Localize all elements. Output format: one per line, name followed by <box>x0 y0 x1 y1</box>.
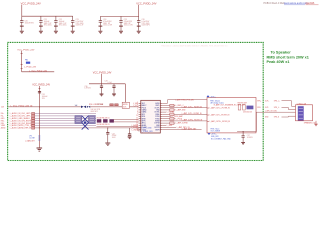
capacitor C11 (bootstrap) <box>170 109 174 112</box>
ground (C22) <box>54 31 58 33</box>
wire row 6 <box>35 125 96 127</box>
net label over long wire <box>265 111 278 113</box>
net label GND stub <box>176 109 187 112</box>
net label BSPR <box>182 127 197 130</box>
net label BSNL <box>182 112 203 115</box>
svg-text:L_SPK_GND: L_SPK_GND <box>141 128 152 130</box>
wire snubber down (right of filter) <box>237 112 256 131</box>
svg-text:INL-: INL- <box>1 116 4 118</box>
svg-text:To Speaker: To Speaker <box>271 51 292 55</box>
wire bypass cap rail <box>89 74 125 102</box>
svg-text:L_GND: L_GND <box>167 125 173 127</box>
svg-text:SPK_L+: SPK_L+ <box>274 100 280 102</box>
svg-text:+BTL-: +BTL- <box>211 134 217 136</box>
value label C23 <box>76 19 85 26</box>
svg-text:MUTE: MUTE <box>123 104 128 106</box>
diode D2 (bowtie small) <box>87 106 90 108</box>
svg-text:TPA3116D2 CLASS-D AMP BOARD S: TPA3116D2 CLASS-D AMP BOARD SINGLE CHANN… <box>161 44 227 47</box>
value label C30 <box>84 86 91 90</box>
net label GND2 <box>167 125 173 127</box>
capacitor C29 <box>112 84 115 94</box>
value label C29 <box>105 80 112 84</box>
svg-text:C37: C37 <box>247 135 250 137</box>
value label C33 C34 <box>243 111 252 113</box>
op-amp U1 TPA3116 body <box>141 100 161 133</box>
svg-text:104 50V X7R: 104 50V X7R <box>91 109 101 111</box>
wire VCC drop <box>39 86 41 107</box>
svg-text:PBTL: Slave: PBTL: Slave <box>211 129 220 131</box>
capacitor C36 <box>128 128 131 135</box>
svg-text:L_PVDD_24V: L_PVDD_24V <box>24 67 37 69</box>
capacitor C12 (bootstrap) <box>170 113 174 116</box>
svg-text:OUTNR: OUTNR <box>154 123 161 125</box>
net label OUTPR <box>177 126 191 129</box>
value label C21 <box>44 19 53 26</box>
value label RN1 <box>97 118 110 127</box>
faint revision text row <box>161 44 227 47</box>
note snubber net (red) <box>214 103 246 106</box>
wire row 7 (to net label) <box>35 127 141 129</box>
value label R26 R27 (row 1) <box>89 104 104 106</box>
capacitor C10 (bootstrap) <box>170 104 174 107</box>
wire OUTNR row <box>162 122 175 124</box>
svg-text:100V_NPO: 100V_NPO <box>142 25 151 27</box>
capacitor C23 <box>71 16 75 31</box>
svg-text:JP2: JP2 <box>29 135 32 137</box>
net label L_PGND (blue, row B) <box>141 131 154 133</box>
wire BSPR row <box>162 129 201 131</box>
wire PVDD2 row <box>162 118 175 120</box>
wire row 2 <box>35 115 96 117</box>
connector CON2 label <box>297 103 306 105</box>
hyperlink underline blue <box>284 4 305 6</box>
svg-text:0603 NPO: 0603 NPO <box>91 111 99 113</box>
svg-text:VCC_PVDD_24V: VCC_PVDD_24V <box>17 49 35 51</box>
svg-text:OUTPL: OUTPL <box>154 107 159 109</box>
capacitor C22 <box>54 16 58 31</box>
net tag text (navy small) <box>75 105 78 107</box>
ground (C23) <box>71 31 75 33</box>
svg-text:L_VCC_PVDD_24V_IN: L_VCC_PVDD_24V_IN <box>11 105 33 107</box>
net label L_VCC_PVDD_24V_IN <box>11 105 33 107</box>
connector J1 pin row 6 <box>1 124 35 127</box>
svg-text:INR+: INR+ <box>1 120 5 122</box>
hierarchical pin BTL+ (diamond) <box>207 95 210 97</box>
connector J1 pin row 3 <box>1 117 35 120</box>
relay K1 inner marks left <box>76 118 80 122</box>
svg-text:SPK_G: SPK_G <box>274 117 280 119</box>
svg-text:CLOSE: CLOSE <box>29 137 34 139</box>
net label L_AMP_PVDD_OUT_FILTER <box>175 98 195 101</box>
junction diamond (crossover) <box>84 121 86 123</box>
svg-text:R30 R31 20R: R30 R31 20R <box>238 103 248 105</box>
svg-text:GND_SPK: GND_SPK <box>211 136 220 138</box>
svg-text:SPK_L-: SPK_L- <box>274 107 280 109</box>
wire BSPL row <box>162 105 175 107</box>
filter pin OTR+ <box>207 120 231 123</box>
svg-text:INR-: INR- <box>1 123 5 125</box>
svg-text:VCC_PVDD_24V: VCC_PVDD_24V <box>136 2 156 6</box>
net label L_SPK (blue, row A) <box>141 128 152 130</box>
svg-text:OUTPR: OUTPR <box>154 127 160 129</box>
value label C25 <box>124 19 133 26</box>
net label PVDD stub <box>172 115 183 118</box>
wire PVDD filter vertical <box>21 51 23 72</box>
value label C24 <box>103 19 112 26</box>
junction (C37) <box>243 131 244 132</box>
ground (C25) <box>119 31 123 33</box>
ground (JP2) <box>37 148 43 151</box>
ground (C36) <box>128 137 132 139</box>
jumper JP2 ticks <box>38 136 40 140</box>
net label OUTNL <box>167 112 174 114</box>
net label stubs left of U1 <box>131 103 139 131</box>
wire row 3 <box>35 117 96 119</box>
note To Speaker (green text) <box>267 51 309 64</box>
svg-text:R26 0.1R R27 20K: R26 0.1R R27 20K <box>89 104 104 106</box>
svg-text:SDZ: SDZ <box>142 103 145 105</box>
value label C37 <box>247 135 254 139</box>
wire speaker L- <box>282 108 296 110</box>
U1 right pin stubs <box>160 103 162 129</box>
sheet border (green dashed) <box>8 42 264 160</box>
svg-text:C35: C35 <box>112 133 115 135</box>
svg-text:35V_105C: 35V_105C <box>44 25 53 27</box>
svg-text:BSNL: BSNL <box>156 114 160 116</box>
wire PVDD stub <box>162 116 171 118</box>
svg-text:105C_LOW: 105C_LOW <box>124 25 133 27</box>
wire row 8 (to net label) <box>97 127 141 131</box>
svg-text:L_SPK_OUT_BTL: L_SPK_OUT_BTL <box>265 111 278 113</box>
power flag VCC_GVDD label <box>93 72 112 75</box>
capacitor C14 (bootstrap) <box>170 122 174 125</box>
inductor L1 (purple body) <box>247 106 254 110</box>
svg-text:VCC_PVDD_24V: VCC_PVDD_24V <box>21 2 41 6</box>
U1 left pin names <box>142 103 147 131</box>
filter pin OTL+ <box>207 107 230 110</box>
connector J1 pin row 5 <box>1 122 35 125</box>
resistor R31 <box>243 105 246 111</box>
capacitor C37 <box>242 132 245 143</box>
net label SPK GND <box>265 117 280 119</box>
svg-text:INPL: INPL <box>142 114 146 116</box>
filter pin OTL- <box>207 114 230 117</box>
svg-text:SPK-: SPK- <box>257 107 261 109</box>
value label row 2 <box>91 109 101 113</box>
wire GND2 stub <box>162 124 166 126</box>
crossover wiring X lower <box>82 123 89 130</box>
power flag VCC_PVDD_24V (drop to main rail) <box>32 85 50 87</box>
svg-text:R2 20K R3 20K C5: R2 20K R3 20K C5 <box>97 118 110 120</box>
connector CON2 pin strip <box>298 106 304 120</box>
wire bank2 rail <box>100 5 138 17</box>
ground (C30) <box>100 94 104 96</box>
svg-text:35V_105C: 35V_105C <box>59 25 68 27</box>
value label C26 <box>142 19 151 26</box>
net label SPK L- <box>257 107 280 109</box>
ferrite bead FB1 body <box>26 62 30 64</box>
jumper JP2 wire <box>38 107 40 148</box>
capacitor C20 <box>20 16 24 31</box>
crossover wiring X upper <box>82 116 89 123</box>
wire OUTPL to filter <box>162 107 207 109</box>
net label gain set <box>25 140 35 143</box>
hyperlink underline red <box>306 4 319 6</box>
ground (C37) <box>241 143 245 145</box>
svg-text:16: 16 <box>136 128 138 130</box>
junction (JP2) <box>39 126 40 129</box>
svg-text:SPK+: SPK+ <box>257 100 261 102</box>
connector CON2 pin marks <box>299 108 303 118</box>
ground (C26) <box>137 31 141 33</box>
wire main PVDD row <box>8 106 81 108</box>
svg-text:OUT+: OUT+ <box>265 100 269 102</box>
svg-text:+BTL+: +BTL+ <box>210 96 217 98</box>
wire row 4 <box>35 120 96 122</box>
wire row 1 <box>35 113 96 115</box>
hierarchical pin BTL- (diamond) <box>208 133 211 135</box>
value label R30 R31 <box>238 103 248 105</box>
wire PVDD filter horizontal <box>22 71 55 73</box>
wire RN1 to IC pins <box>114 120 139 122</box>
svg-text:OUT-: OUT- <box>265 107 269 109</box>
ground (speaker) <box>314 121 317 126</box>
svg-text:105C_LOW: 105C_LOW <box>103 25 112 27</box>
svg-text:RMS short term 20W x1: RMS short term 20W x1 <box>267 56 309 60</box>
junction (C35) <box>107 126 108 129</box>
svg-text:R4 20K R5 20K C6: R4 20K R5 20K C6 <box>97 124 110 126</box>
capacitor C21 <box>39 16 43 31</box>
connector J1 pin row 4 <box>1 119 35 122</box>
wire GND row <box>162 109 175 111</box>
svg-text:INNL: INNL <box>142 116 146 118</box>
net stub label 24V (outside border) <box>1 107 5 109</box>
ground (C35) <box>105 143 110 145</box>
output filter block outline <box>207 98 256 133</box>
power flag VCC_PVDD_24V (bank 1 label) <box>21 2 41 6</box>
svg-text:PCB3.0 Rev1.0 Web:: PCB3.0 Rev1.0 Web: <box>264 3 286 5</box>
capacitor C25 <box>119 16 123 30</box>
svg-text:VCC_PVDD_24V: VCC_PVDD_24V <box>93 72 112 75</box>
net label BSNR <box>182 119 203 122</box>
svg-text:1uF: 1uF <box>75 105 78 107</box>
svg-text:103/50V: 103/50V <box>247 137 254 139</box>
svg-text:INL+: INL+ <box>1 113 4 115</box>
svg-text:FB1: FB1 <box>25 59 28 61</box>
diode D1 (bowtie) <box>81 106 86 108</box>
relay K1 inner marks right <box>90 118 94 122</box>
U1 left pin stubs <box>139 103 141 129</box>
resistor R30 <box>238 105 241 111</box>
svg-text:OUTNL: OUTNL <box>154 112 160 114</box>
net label OUTNR <box>176 122 189 125</box>
capacitor C31 <box>38 91 41 93</box>
svg-text:1uF/50V: 1uF/50V <box>84 88 91 90</box>
svg-text:470nF: 470nF <box>112 135 117 137</box>
label BTL- <box>211 134 217 136</box>
component U2 (boxed) <box>122 102 129 108</box>
note PBTL mode (blue) <box>210 100 224 105</box>
wire OUTNL stub <box>162 111 166 113</box>
capacitor C26 <box>137 16 141 30</box>
resistor R26 <box>110 104 114 106</box>
sheet border (light underlay) <box>8 42 264 160</box>
relay K1 body right <box>89 116 96 124</box>
svg-text:VCC_PVDD_24V: VCC_PVDD_24V <box>32 85 50 87</box>
net label PVDD2 <box>176 118 183 120</box>
net label L_VCC_PVDD_24V (on wire) <box>29 70 47 72</box>
svg-text:C33 C34 103: C33 C34 103 <box>243 111 252 113</box>
ferrite bead FB1 label <box>25 59 28 61</box>
wire BSNR to filter <box>162 120 207 122</box>
label SPEAKER <box>304 122 316 125</box>
connector J1 pin row 2 <box>1 115 35 118</box>
net label BSPL <box>176 105 185 107</box>
note PBTL slave (blue, inside box bottom) <box>211 129 221 133</box>
net label SPK L+ (inside border) <box>257 100 280 102</box>
wire bank1 rail <box>22 5 73 16</box>
power flag VCC_PVDD_24V (filter subcircuit) <box>17 49 35 51</box>
capacitor C35 <box>106 128 109 143</box>
junction (VCC drop to main wire) <box>39 106 40 107</box>
label JP2 (blue) <box>29 135 34 139</box>
svg-text:1000uF/35V: 1000uF/35V <box>25 22 35 24</box>
wire row 5 <box>35 122 96 124</box>
note GND speaker (blue rows) <box>211 136 231 140</box>
relay K1 body left <box>75 116 82 124</box>
capacitor C30 <box>100 84 103 94</box>
connector J1 pin row 1 <box>1 112 35 115</box>
svg-text:L_PGND_SPK: L_PGND_SPK <box>141 131 154 133</box>
capacitor C24 <box>99 16 103 30</box>
wire main row right segment <box>90 106 138 108</box>
U1 right pin names <box>154 103 161 131</box>
wire speaker GND <box>282 115 296 118</box>
wire U1 pin to filter top <box>162 100 207 104</box>
connector CON2 body <box>296 105 313 121</box>
capacitor C13 (bootstrap) <box>170 118 174 121</box>
wire speaker L+ <box>282 101 296 107</box>
label BTL+ <box>210 96 217 98</box>
value label C35 <box>112 133 117 139</box>
svg-text:L_AUDIO_AGND_REF_IN: L_AUDIO_AGND_REF_IN <box>10 127 32 130</box>
value label C20 <box>25 21 35 25</box>
svg-text:VREF: VREF <box>1 125 5 127</box>
ground (C20) <box>20 31 24 33</box>
wire speaker long (through border) <box>256 111 296 113</box>
value label C22 <box>59 19 68 26</box>
title text top right <box>264 2 315 5</box>
U1 left pin numbers <box>136 102 138 130</box>
resistor R27 <box>115 104 119 106</box>
net label L_PVDD_24V <box>24 67 37 69</box>
wire BSNL to filter <box>162 113 207 115</box>
wire OUTPR stub <box>162 127 176 129</box>
ground (C24) <box>98 31 102 33</box>
power flag VCC_PVDD_24V (bank 2 label) <box>136 2 156 6</box>
svg-text:Peak 40W x1: Peak 40W x1 <box>267 60 290 64</box>
svg-text:100V_1uF: 100V_1uF <box>76 25 84 27</box>
svg-text:0.1uF: 0.1uF <box>108 82 112 84</box>
svg-text:BSPL: BSPL <box>156 105 160 107</box>
ground (C21) <box>39 31 43 33</box>
resistor network RN1 (dark blocks) <box>97 119 114 122</box>
value label C31 <box>42 94 48 100</box>
net label OUTPL <box>182 105 203 108</box>
connector J1 pin row 7 <box>1 127 35 130</box>
ground (C29) <box>112 94 116 96</box>
